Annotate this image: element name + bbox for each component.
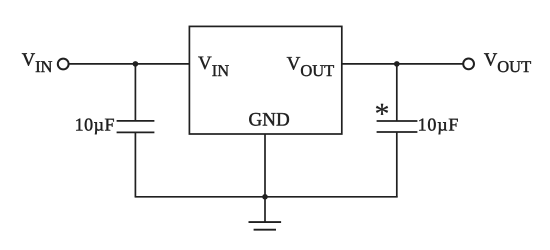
pin label VIN inside regulator bbox=[198, 53, 229, 80]
capacitor C2 (output 10uF) plates bbox=[377, 121, 418, 132]
svg-text:10µF: 10µF bbox=[418, 115, 460, 135]
input terminal circle bbox=[58, 59, 69, 70]
svg-text:GND: GND bbox=[249, 109, 290, 130]
value label 10uF for C2 bbox=[418, 115, 460, 135]
ground symbol bbox=[249, 222, 282, 230]
node ground junction bbox=[262, 194, 268, 200]
asterisk note marker on C2 bbox=[375, 98, 390, 131]
regulator U1 body bbox=[189, 26, 341, 134]
output terminal circle bbox=[463, 59, 474, 70]
node output junction bbox=[394, 61, 400, 67]
wire input terminal to regulator VIN pin bbox=[69, 63, 189, 65]
value label 10uF for C1 bbox=[75, 114, 115, 134]
wire C2 bottom plate to ground rail bbox=[396, 132, 398, 197]
pin label GND inside regulator bbox=[249, 109, 290, 130]
wire input junction down to C1 top plate bbox=[134, 64, 136, 121]
capacitor C1 (input 10uF) plates bbox=[117, 121, 155, 132]
pin label VOUT inside regulator bbox=[287, 53, 335, 80]
svg-text:*: * bbox=[375, 98, 390, 131]
wire output junction down to C2 top plate bbox=[396, 64, 398, 121]
label VIN terminal bbox=[22, 50, 53, 76]
svg-text:10µF: 10µF bbox=[75, 114, 115, 134]
wire C1 bottom plate to ground rail bbox=[134, 132, 136, 196]
node input junction bbox=[133, 61, 139, 67]
wire regulator VOUT pin to output terminal bbox=[342, 63, 463, 65]
label VOUT terminal bbox=[484, 50, 531, 76]
wire regulator GND pin down to ground symbol bbox=[264, 134, 266, 222]
wire ground rail bbox=[135, 196, 398, 198]
